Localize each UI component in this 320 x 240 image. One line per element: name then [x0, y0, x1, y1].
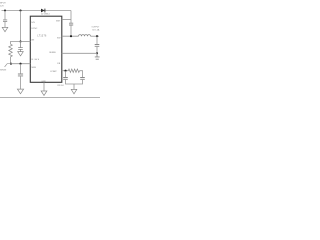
wire cap to ground [4, 22, 6, 27]
wire resistor to cap [80, 71, 83, 78]
ground VIN cap [18, 52, 24, 56]
node comp [64, 70, 66, 72]
wire soft start cap drop [20, 64, 22, 74]
node soft start cap [19, 63, 21, 65]
capacitor CC1 [63, 78, 68, 80]
node output ground [96, 52, 98, 54]
wire SW pin [62, 35, 79, 37]
ground output [95, 53, 100, 59]
node VOUT [96, 35, 98, 37]
svg-text:BST: BST [56, 20, 61, 22]
svg-text:VIN: VIN [31, 40, 35, 42]
svg-text:OUTPUT: OUTPUT [92, 26, 100, 28]
wire input cap drop [4, 11, 6, 20]
node VIN [19, 40, 21, 42]
wire output cap drop [96, 36, 98, 44]
ground soft start cap [17, 89, 23, 94]
wire inductor to output [91, 35, 100, 37]
svg-text:D2 1N914: D2 1N914 [41, 13, 50, 15]
node SW boost cap [70, 35, 72, 37]
wire BOOST pin [62, 18, 71, 20]
svg-text:BIAS: BIAS [32, 58, 40, 61]
svg-text:S/S: S/S [31, 22, 35, 24]
wire shutdown stub [5, 64, 11, 67]
wire to ground [20, 76, 22, 89]
wire GND pin drop [43, 82, 45, 91]
wire cap to ground node [96, 47, 98, 54]
svg-text:SENSE: SENSE [49, 52, 56, 54]
resistor RC [68, 69, 79, 72]
capacitor C4 at VIN node [18, 42, 23, 52]
resistor R3 [9, 44, 13, 57]
ground input cap [2, 27, 8, 31]
svg-text:12V: 12V [0, 5, 4, 7]
node input cap junction [4, 9, 6, 11]
capacitor C1 output [95, 45, 100, 47]
node shutdown resistor bottom [10, 63, 12, 65]
bottom rule [0, 96, 100, 98]
capacitor C2 boost [69, 23, 73, 25]
wire cap1 drop [65, 71, 67, 78]
svg-text:1376 F01: 1376 F01 [57, 85, 64, 87]
diode D2 [41, 9, 45, 13]
svg-text:5V, 1.2A: 5V, 1.2A [92, 29, 100, 32]
svg-text:LT1376: LT1376 [37, 36, 47, 38]
wire jog to shutdown resistor [11, 42, 21, 45]
svg-text:SHDN: SHDN [0, 69, 7, 71]
svg-text:COMP: COMP [50, 71, 57, 73]
wire top rail VIN to boost diode [2, 10, 72, 12]
wire SENSE line [62, 52, 97, 54]
ground IC [41, 91, 47, 96]
capacitor CC2 [80, 78, 85, 80]
wire boost column down [70, 11, 72, 24]
svg-text:INPUT: INPUT [0, 3, 6, 5]
wire COMP pin [62, 70, 69, 72]
wire VIN pin [21, 41, 31, 43]
capacitor C3 input [3, 20, 7, 22]
inductor L1 [79, 35, 91, 37]
svg-text:SYNC: SYNC [31, 28, 37, 30]
wire S/S rail [11, 63, 30, 65]
wire boost cap to SW node [70, 25, 72, 36]
wire resistor to S/S rail [10, 57, 12, 64]
wire VIN column [20, 11, 22, 42]
svg-text:NFB: NFB [32, 67, 37, 69]
node top of VIN column [19, 9, 21, 11]
IC U1 regulator box [30, 16, 62, 82]
ground comp [71, 89, 77, 93]
wire comp ground rail [66, 80, 83, 90]
capacitor C5 soft start [18, 74, 23, 76]
